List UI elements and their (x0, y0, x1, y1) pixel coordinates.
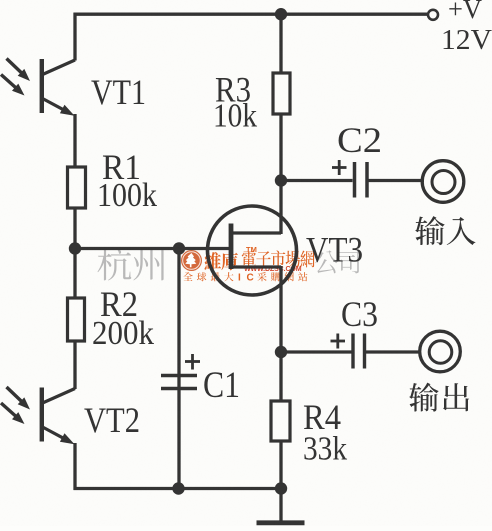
ground (257, 487, 305, 523)
wire top rail (74, 13, 428, 16)
label VT1 (91, 72, 146, 112)
C2 polarity + (332, 160, 347, 175)
junction R3 / C2 / drain (275, 174, 287, 186)
capacitor C1 (161, 376, 197, 389)
wire right rail top (279, 13, 282, 74)
wire VT2 emitter to bottom rail (73, 443, 76, 490)
wire R4 to bottom rail (279, 440, 282, 490)
label VT3 (306, 230, 363, 270)
label R1 (102, 147, 141, 187)
capacitor C3 (353, 334, 365, 369)
capacitor C2 (355, 162, 368, 198)
wire VT3 source to C3 node (279, 266, 282, 353)
junction source / C3 / R4 (275, 346, 287, 358)
output terminal (420, 331, 461, 372)
label +V (448, 0, 482, 24)
label C2 (337, 120, 382, 160)
junction bottom rail / R4 / ground (275, 482, 287, 494)
wire gate bus (node A to VT3 gate) (75, 247, 230, 250)
transistor VT3 (FET) (208, 206, 297, 295)
junction bottom rail / C1 (172, 482, 184, 494)
wire C3 node to R4 (279, 351, 282, 402)
label output (Chinese) (409, 383, 469, 412)
label R2 (100, 284, 138, 324)
transistor Q VT1 (phototransistor) (42, 59, 75, 116)
wire node A to R2 (73, 247, 76, 299)
wire C1 branch (177, 249, 180, 489)
input terminal (422, 161, 464, 203)
resistor R2 (68, 298, 85, 341)
resistor R1 (68, 167, 86, 208)
wire C3 left (281, 350, 352, 353)
wire R3 to C2 node (279, 113, 282, 182)
value 100k (97, 177, 157, 214)
wire bottom rail (74, 487, 282, 490)
wire VT1 emitter to R1 (73, 114, 76, 168)
label C3 (341, 294, 378, 334)
power terminal +V (428, 10, 438, 20)
wire C3 right (366, 350, 421, 353)
label VT2 (84, 400, 140, 440)
junction top rail / R3 (275, 8, 287, 20)
label R3 (215, 70, 251, 110)
label R4 (303, 397, 341, 437)
label 12V (441, 24, 492, 56)
label input (Chinese) (415, 216, 475, 245)
wire C2 node to VT3 drain (279, 180, 282, 234)
resistor R4 (271, 401, 290, 441)
light arrow 2 into VT2 (1, 403, 25, 424)
wire R1 to node A (73, 207, 76, 250)
wire C2 right (369, 179, 425, 182)
wire C2 left (281, 179, 353, 182)
C1 polarity + (185, 354, 200, 370)
light arrow 1 into VT1 (7, 59, 31, 82)
label C1 (203, 365, 240, 406)
value 200k (92, 315, 154, 352)
node A junction (R1/R2/gate) (69, 242, 81, 254)
junction gate bus / C1 (173, 242, 185, 254)
resistor R3 (273, 73, 290, 114)
C3 polarity + (331, 334, 346, 349)
light arrow 2 into VT1 (1, 75, 25, 96)
watermark (98, 245, 360, 284)
wire left rail upper (73, 13, 76, 61)
wire R2 to VT2 (73, 340, 76, 389)
value 33k (303, 431, 347, 468)
light arrow 1 into VT2 (7, 387, 31, 410)
transistor Q VT2 (phototransistor) (42, 388, 75, 445)
value 10k (213, 98, 257, 135)
